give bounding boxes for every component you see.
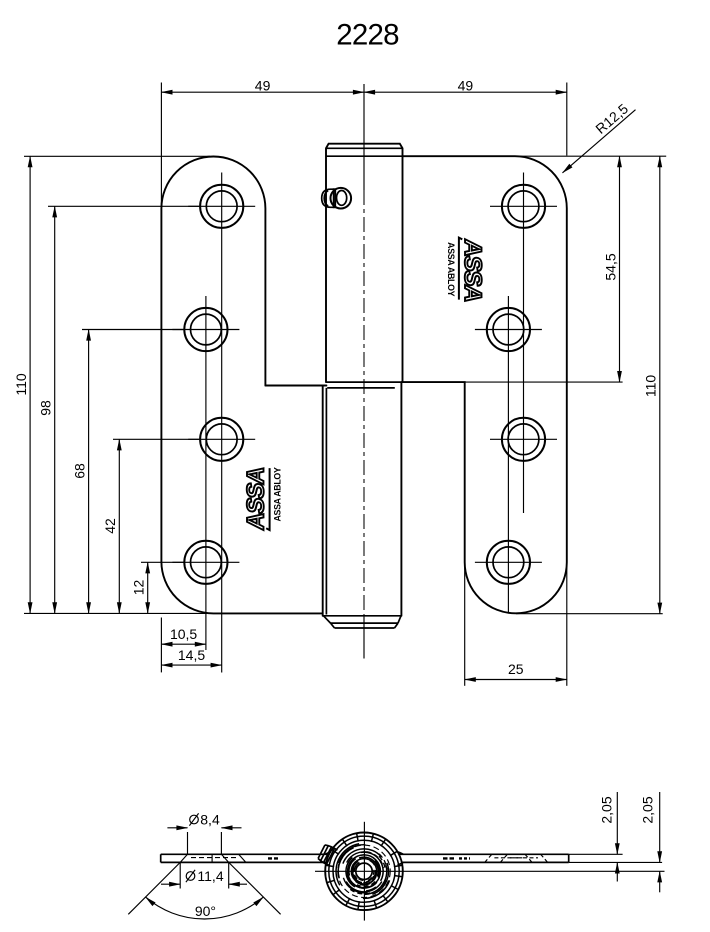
svg-text:49: 49 [255, 77, 271, 93]
svg-text:12: 12 [131, 580, 147, 596]
svg-text:110: 110 [643, 375, 659, 398]
svg-text:10,5: 10,5 [170, 626, 197, 642]
svg-text:ASSA: ASSA [459, 238, 486, 304]
svg-text:42: 42 [102, 518, 118, 534]
svg-text:2,05: 2,05 [640, 796, 656, 823]
svg-text:ASSA ABLOY: ASSA ABLOY [272, 467, 282, 521]
svg-text:25: 25 [508, 661, 524, 677]
svg-text:54,5: 54,5 [602, 253, 618, 280]
svg-text:14,5: 14,5 [178, 647, 205, 663]
svg-text:ASSA ABLOY: ASSA ABLOY [446, 242, 456, 296]
svg-text:98: 98 [38, 400, 54, 416]
svg-text:90°: 90° [195, 903, 216, 919]
svg-text:110: 110 [13, 373, 29, 396]
svg-text:2,05: 2,05 [599, 796, 615, 823]
svg-text:8,4: 8,4 [200, 812, 220, 828]
svg-text:49: 49 [458, 77, 474, 93]
svg-text:11,4: 11,4 [197, 868, 223, 884]
svg-text:68: 68 [71, 463, 87, 479]
svg-text:2228: 2228 [336, 19, 399, 52]
svg-text:ASSA: ASSA [243, 465, 270, 531]
